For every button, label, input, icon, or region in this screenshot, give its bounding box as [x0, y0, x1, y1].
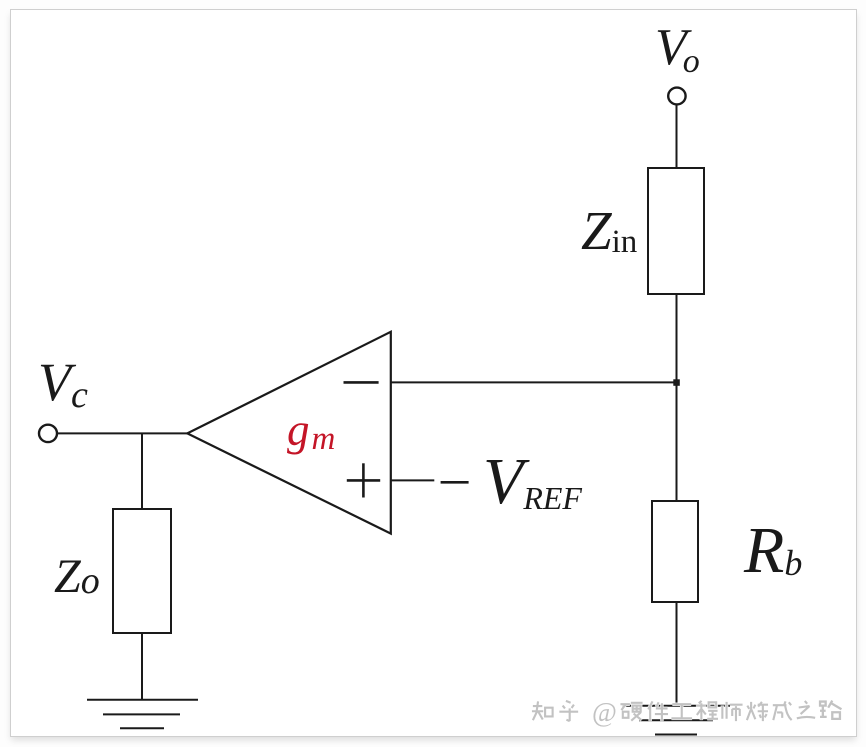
svg-text:Vc: Vc — [38, 352, 88, 416]
op-amp U1 triangle — [187, 332, 390, 534]
terminal Vc circle — [39, 425, 57, 442]
ground left — [87, 700, 198, 728]
op-amp minus input sign — [344, 381, 379, 384]
svg-text:VREF: VREF — [483, 445, 582, 518]
wire Vo to Zin — [676, 105, 678, 169]
svg-text:@: @ — [592, 697, 617, 727]
wire minus input to node — [391, 381, 678, 383]
terminal Vo circle — [668, 88, 685, 105]
svg-text:Rb: Rb — [743, 514, 802, 587]
resistor Zin — [648, 168, 704, 294]
wire Vc to op-amp — [57, 432, 188, 434]
resistor Rb — [652, 501, 698, 602]
svg-text:Vo: Vo — [655, 19, 700, 80]
op-amp plus input sign — [347, 463, 380, 497]
ground right — [622, 706, 730, 735]
svg-text:Zin: Zin — [581, 200, 637, 261]
wire plus input to VREF — [391, 479, 435, 481]
wire Zin to node and Rb — [676, 294, 678, 501]
resistor Zo — [113, 509, 171, 633]
wire branch to Zo — [141, 433, 143, 509]
svg-text:Zo: Zo — [54, 550, 100, 603]
wire Zo to ground — [141, 633, 143, 700]
junction node dot — [673, 379, 680, 386]
svg-text:gm: gm — [287, 405, 335, 457]
minus dash before VREF — [441, 481, 469, 484]
wire Rb to ground — [676, 602, 678, 705]
